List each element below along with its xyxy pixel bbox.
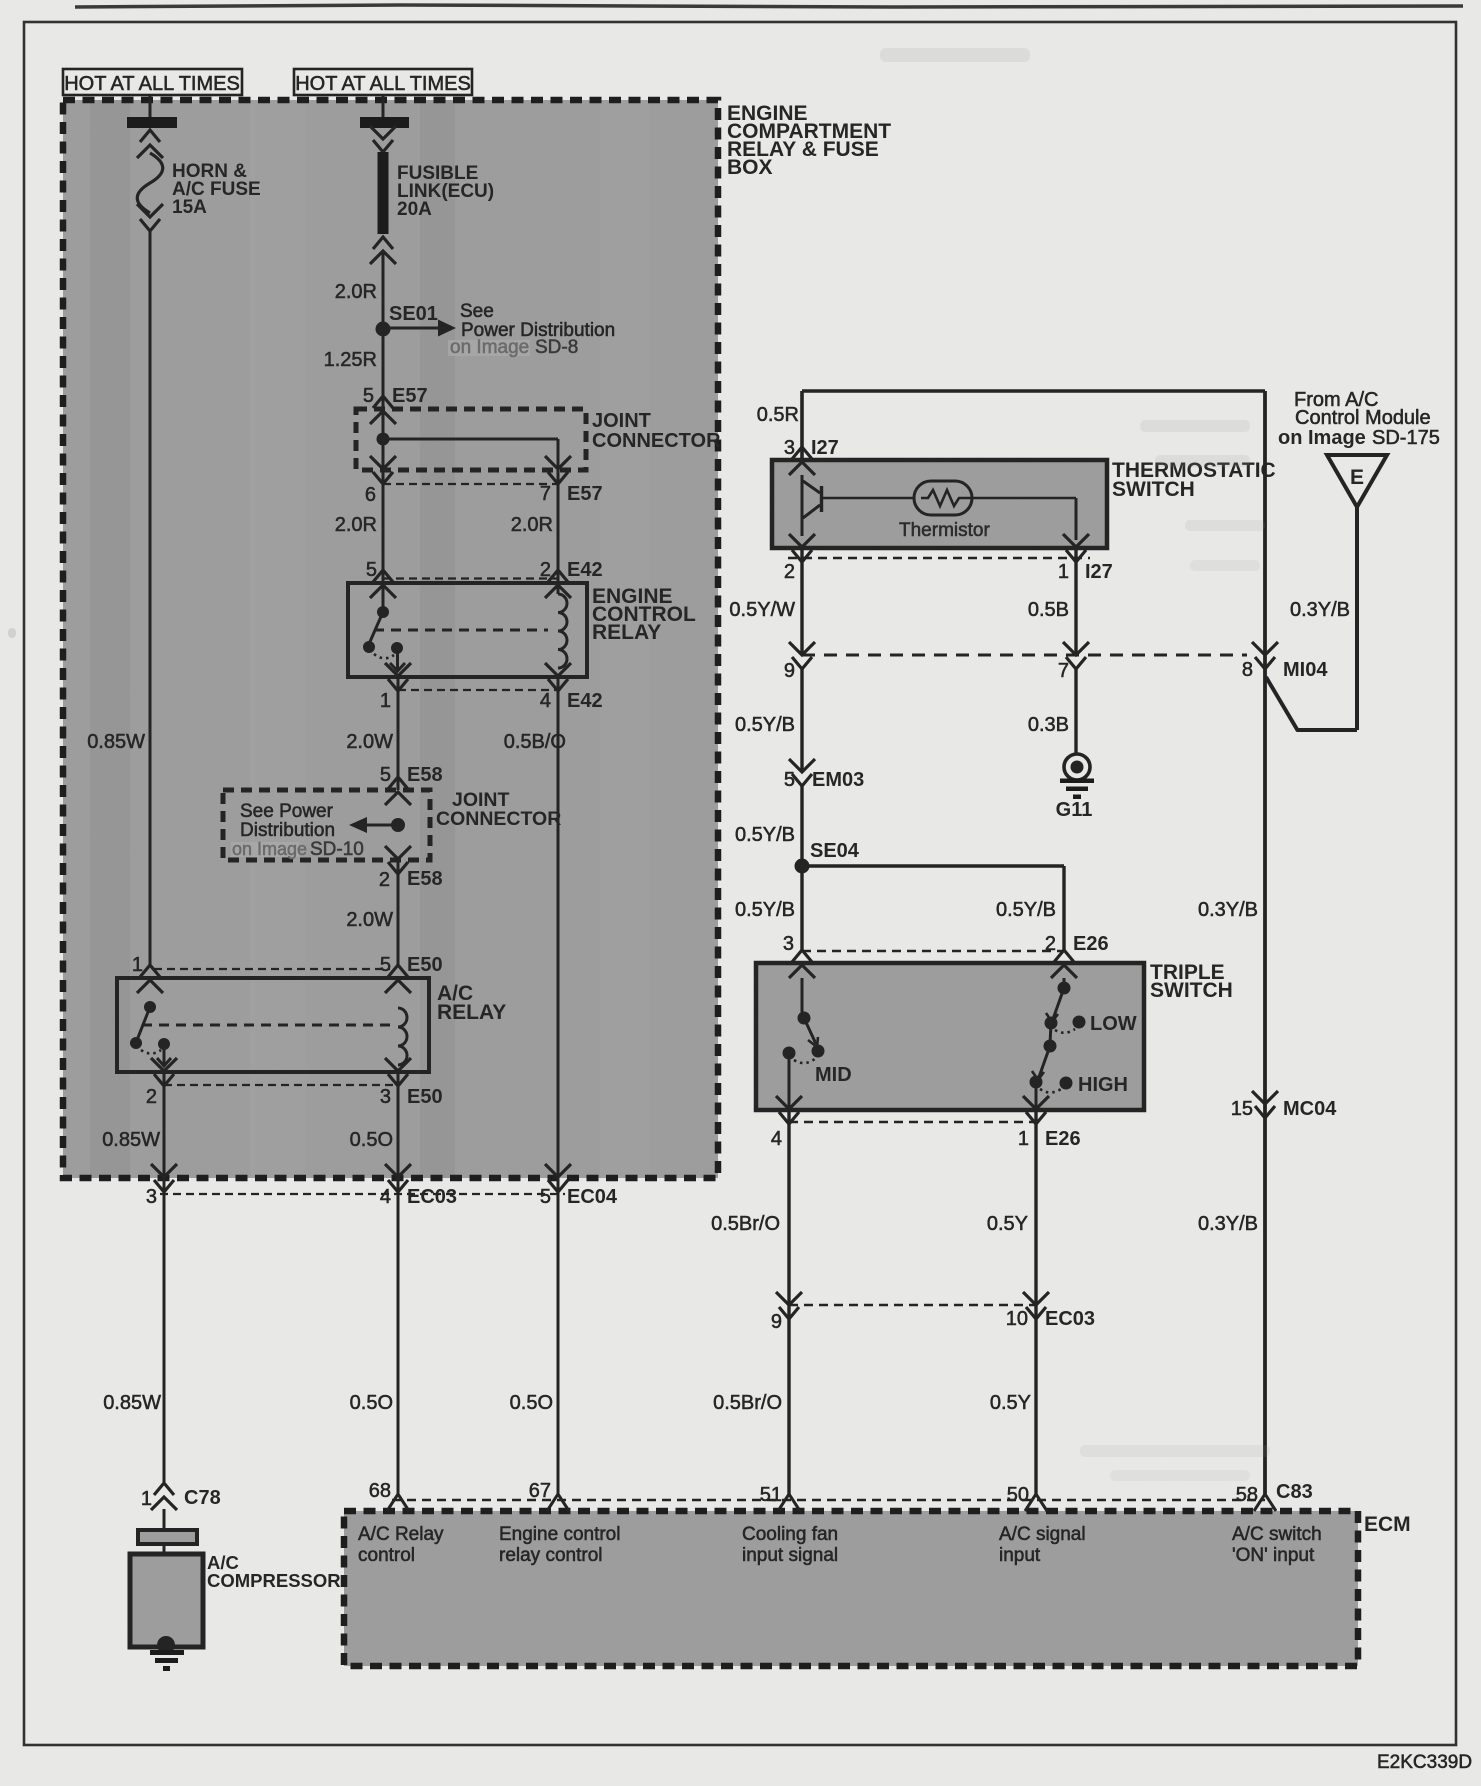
svg-text:0.5Y/B: 0.5Y/B: [735, 899, 795, 921]
svg-text:A/C Relay: A/C Relay: [358, 1524, 444, 1545]
connector E57 pin 5 symbol: [373, 396, 393, 408]
connector line E50 bottom (thin dashed): [164, 1084, 398, 1086]
svg-text:20A: 20A: [397, 199, 432, 220]
svg-text:G11: G11: [1056, 799, 1093, 821]
svg-text:E50: E50: [407, 954, 443, 976]
svg-text:SD-10: SD-10: [310, 839, 364, 860]
EC03 pin 10 symbol: [1023, 1292, 1049, 1305]
connector EM03 pin 5 symbol: [789, 759, 815, 772]
svg-text:15A: 15A: [172, 197, 207, 218]
connector line E26 bottom (thin dashed): [789, 1121, 1036, 1123]
svg-text:3: 3: [146, 1186, 157, 1208]
connector line E42 top (thin dashed): [383, 577, 558, 579]
svg-text:HIGH: HIGH: [1078, 1074, 1128, 1096]
node SE01: [376, 322, 391, 337]
svg-text:6: 6: [365, 484, 376, 506]
svg-text:'ON' input: 'ON' input: [1232, 1545, 1315, 1566]
svg-text:A/C switch: A/C switch: [1232, 1524, 1322, 1545]
svg-text:EC04: EC04: [567, 1186, 618, 1208]
svg-text:5: 5: [784, 769, 795, 791]
wire from thermistor to I27 pin 1: [966, 497, 1076, 500]
svg-text:1: 1: [1018, 1128, 1029, 1150]
connector line I27 (thin dashed): [788, 557, 1090, 560]
svg-text:2.0W: 2.0W: [346, 731, 393, 753]
svg-text:SWITCH: SWITCH: [1112, 478, 1195, 501]
wire E57 pin7 to E42 pin 2: [557, 468, 560, 594]
svg-text:7: 7: [1058, 660, 1069, 682]
ECM pin 50 fork: [1025, 1494, 1047, 1511]
engine compartment relay & fuse box (shaded dashed box): [63, 100, 718, 1178]
power bus bar (left): [127, 117, 177, 128]
svg-text:0.3Y/B: 0.3Y/B: [1198, 899, 1258, 921]
svg-text:0.5Y/B: 0.5Y/B: [996, 899, 1056, 921]
svg-text:Control Module: Control Module: [1295, 407, 1431, 429]
junction node in joint connector E57: [377, 433, 390, 446]
wire right column to ECM pin 58: [1263, 391, 1267, 1494]
relay coil (engine control relay): [558, 594, 567, 668]
connector MC04 pin 15 symbol: [1252, 1091, 1278, 1104]
svg-text:HOT AT ALL TIMES: HOT AT ALL TIMES: [295, 73, 471, 95]
wire E58 pin 2 to E50 pin 5: [397, 860, 400, 966]
svg-text:E58: E58: [407, 764, 443, 786]
LOW/HIGH switch: [1063, 978, 1066, 986]
svg-text:0.5Y: 0.5Y: [990, 1392, 1031, 1414]
connector C78 pin 1: [154, 1483, 174, 1495]
wire down to I27 pin 3: [800, 391, 804, 460]
svg-text:4: 4: [771, 1128, 782, 1150]
relay: A/C RELAY box: [117, 978, 429, 1072]
junction node in joint connector E58: [391, 818, 405, 832]
wire SE04 branch to E26 pin 2: [802, 864, 1064, 867]
relay coil (A/C relay): [398, 1008, 407, 1065]
connector line E50 top (thin dashed): [154, 968, 390, 970]
connector below fusible link: [373, 237, 393, 249]
svg-text:ECM: ECM: [1364, 1513, 1411, 1536]
connector below right bus bar: [370, 126, 396, 139]
svg-text:Thermistor: Thermistor: [899, 520, 990, 541]
svg-text:SWITCH: SWITCH: [1150, 979, 1233, 1002]
svg-text:input: input: [999, 1545, 1041, 1566]
wire branch to E57 pin 7: [383, 438, 558, 441]
svg-text:CONNECTOR: CONNECTOR: [592, 430, 721, 452]
svg-text:SE04: SE04: [810, 840, 860, 862]
svg-text:A/C signal: A/C signal: [999, 1524, 1086, 1545]
connector below fuse: [137, 204, 163, 217]
svg-text:SE01: SE01: [389, 303, 438, 325]
relay internal dashed link: [374, 629, 548, 632]
E42 pin 4 exit symbol: [545, 663, 571, 676]
connector line EC03/EC04 (thin dashed): [160, 1193, 565, 1195]
connector I27 pin 3 symbol: [792, 447, 812, 459]
fuse box exit pin 5 symbol: [545, 1164, 571, 1177]
svg-text:HOT AT ALL TIMES: HOT AT ALL TIMES: [64, 73, 240, 95]
svg-text:0.85W: 0.85W: [87, 731, 145, 753]
E50 pin 3 exit symbol: [385, 1058, 411, 1071]
svg-text:0.5Br/O: 0.5Br/O: [711, 1213, 780, 1235]
photocopy noise overlay: [0, 0, 1, 1]
wire E26 pin1 to ECM pin 50: [1034, 1110, 1037, 1494]
svg-text:EC03: EC03: [407, 1186, 457, 1208]
E42 pin 1 exit symbol: [385, 663, 411, 676]
joint connector E57 (dashed box): [356, 409, 586, 470]
svg-text:2: 2: [146, 1086, 157, 1108]
connector E58 pin 5 symbol: [388, 777, 408, 789]
E50 pin 1 entry symbol: [140, 965, 160, 977]
wire I27 pin1 to MI04 pin 7: [1074, 548, 1077, 655]
E50 pin 2 exit symbol: [151, 1058, 177, 1071]
svg-text:0.5O: 0.5O: [510, 1392, 553, 1414]
svg-text:4: 4: [380, 1186, 391, 1208]
svg-text:0.5O: 0.5O: [350, 1392, 393, 1414]
connector line E26 top (thin dashed): [802, 950, 1064, 952]
svg-text:E26: E26: [1045, 1128, 1081, 1150]
fuse box exit pin 3 symbol: [151, 1164, 177, 1177]
svg-text:See: See: [460, 301, 494, 322]
svg-text:relay control: relay control: [499, 1545, 603, 1566]
svg-text:1.25R: 1.25R: [324, 349, 377, 371]
svg-text:MI04: MI04: [1283, 659, 1328, 681]
svg-text:0.85W: 0.85W: [102, 1129, 160, 1151]
ECM pin 58 fork / connector C83: [1254, 1494, 1276, 1511]
wire from right HOT AT ALL TIMES to fusible link: [382, 95, 385, 118]
svg-text:1: 1: [132, 954, 143, 976]
wire E42 pin1 to E58 pin 5: [397, 677, 400, 790]
svg-text:MC04: MC04: [1283, 1098, 1337, 1120]
wire from fusible link to E57 pin 5: [382, 251, 385, 612]
connector line C83 (thin dashed): [392, 1499, 1265, 1501]
svg-text:E42: E42: [567, 690, 603, 712]
thermo switch contact symbol: [801, 475, 804, 536]
svg-text:Engine control: Engine control: [499, 1524, 620, 1545]
svg-text:RELAY: RELAY: [592, 621, 661, 644]
svg-text:0.3Y/B: 0.3Y/B: [1198, 1213, 1258, 1235]
svg-text:BOX: BOX: [727, 156, 773, 179]
svg-text:5: 5: [363, 385, 374, 407]
ground symbol below compressor: [150, 1650, 184, 1655]
scan artifact top edge: [75, 5, 1463, 7]
svg-text:0.5O: 0.5O: [350, 1129, 393, 1151]
svg-text:LOW: LOW: [1090, 1013, 1137, 1035]
svg-text:50: 50: [1007, 1484, 1029, 1506]
svg-text:SD-175: SD-175: [1372, 427, 1440, 449]
svg-text:EC03: EC03: [1045, 1308, 1095, 1330]
svg-text:on Image: on Image: [232, 839, 307, 859]
svg-text:3: 3: [380, 1086, 391, 1108]
MI04 pin 7 symbol: [1063, 642, 1089, 655]
svg-text:E58: E58: [407, 868, 443, 890]
svg-text:Distribution: Distribution: [240, 820, 335, 841]
svg-text:0.5B: 0.5B: [1028, 599, 1069, 621]
svg-text:2.0R: 2.0R: [511, 514, 553, 536]
svg-text:E42: E42: [567, 559, 603, 581]
svg-text:C83: C83: [1276, 1481, 1313, 1503]
svg-text:SD-8: SD-8: [535, 337, 578, 358]
svg-text:E57: E57: [392, 385, 428, 407]
off-page connector E (triangle): [1327, 455, 1387, 507]
svg-text:15: 15: [1231, 1098, 1253, 1120]
arrow to See Power Distribution on Image SD-10: [367, 824, 392, 827]
svg-text:1: 1: [141, 1488, 152, 1510]
svg-text:1: 1: [1058, 561, 1069, 583]
E42 pin 2 entry symbol: [548, 570, 568, 582]
svg-text:7: 7: [540, 483, 551, 505]
wire E26 pin4 to ECM pin 51: [787, 1110, 790, 1494]
relay switch (A/C relay): [144, 1001, 156, 1013]
compressor clutch coil bar: [138, 1530, 197, 1544]
svg-text:1: 1: [380, 690, 391, 712]
svg-text:JOINT: JOINT: [592, 410, 651, 432]
fusible link (ECU) 20A thick bar: [378, 152, 389, 234]
svg-text:0.5Y/B: 0.5Y/B: [735, 824, 795, 846]
wire I27 pin2 to MI04 pin 9: [800, 548, 803, 655]
ECM pin 67 fork: [547, 1494, 569, 1511]
ECM (shaded dashed box): [344, 1511, 1358, 1666]
svg-text:on Image: on Image: [450, 337, 529, 358]
wire E50 pin3 to ECM pin 68: [397, 1072, 400, 1494]
ECM pin 51 fork: [778, 1494, 800, 1511]
svg-text:C78: C78: [184, 1487, 221, 1509]
svg-text:4: 4: [540, 690, 551, 712]
svg-text:E50: E50: [407, 1086, 443, 1108]
svg-text:5: 5: [380, 764, 391, 786]
E42 pin 5 entry symbol: [373, 570, 393, 582]
svg-text:0.5Y: 0.5Y: [987, 1213, 1028, 1235]
ECM pin 68 fork: [387, 1494, 409, 1511]
HOT AT ALL TIMES label box (left): [63, 69, 242, 95]
connector E57 pin 7 symbol: [545, 456, 571, 469]
svg-text:MID: MID: [815, 1064, 852, 1086]
fuse box exit pin 4 symbol: [385, 1164, 411, 1177]
wire E42 pin4 down to ECM pin 67: [557, 677, 560, 1494]
svg-text:68: 68: [369, 1480, 391, 1502]
E26 pin 1 exit symbol: [1023, 1096, 1049, 1109]
faint ghost marks (photocopy bleed): [8, 48, 1270, 1481]
svg-text:E26: E26: [1073, 933, 1109, 955]
svg-text:EM03: EM03: [812, 769, 864, 791]
svg-text:input signal: input signal: [742, 1545, 838, 1566]
svg-text:9: 9: [784, 660, 795, 682]
svg-text:2: 2: [784, 561, 795, 583]
A/C COMPRESSOR box: [130, 1554, 203, 1647]
wire from E to MI04 pin 8: [1355, 507, 1359, 730]
svg-text:See Power: See Power: [240, 801, 334, 822]
svg-text:I27: I27: [1085, 561, 1113, 583]
svg-text:58: 58: [1236, 1484, 1258, 1506]
compressor ground dot: [157, 1636, 175, 1654]
MI04 pin 9 symbol: [789, 642, 815, 655]
THERMOSTATIC SWITCH box: [772, 460, 1107, 548]
connector I27 pin 1 symbol: [1063, 534, 1089, 547]
E26 pin 3 entry symbol: [792, 950, 812, 962]
connector I27 pin 2 symbol: [789, 534, 815, 547]
relay: ENGINE CONTROL RELAY box: [348, 583, 587, 677]
svg-text:2: 2: [379, 869, 390, 891]
svg-text:E57: E57: [567, 483, 603, 505]
wire MI04 pin9 to EM03: [800, 669, 803, 770]
svg-text:control: control: [358, 1545, 415, 1566]
svg-text:on Image: on Image: [1278, 427, 1366, 449]
MID switch: [801, 978, 804, 1016]
TRIPLE SWITCH box: [756, 963, 1144, 1110]
joint connector E58 (dashed box): [223, 790, 430, 860]
E26 pin 2 entry symbol: [1054, 950, 1074, 962]
relay internal dashed link (A/C relay): [142, 1024, 390, 1027]
svg-text:I27: I27: [811, 437, 839, 459]
connector line E42 bottom (thin dashed): [398, 689, 558, 691]
svg-text:5: 5: [380, 954, 391, 976]
wire MI04 pin7 to ground G11: [1074, 669, 1077, 754]
svg-text:2: 2: [1045, 933, 1056, 955]
arrow to See Power Distribution on Image SD-8: [390, 327, 440, 330]
ground G11: [1064, 754, 1090, 780]
svg-text:51: 51: [760, 1484, 782, 1506]
MI04 pin 8 symbol: [1252, 642, 1278, 655]
svg-text:RELAY: RELAY: [437, 1001, 506, 1024]
svg-text:0.85W: 0.85W: [103, 1392, 161, 1414]
connector E57 pin 6 symbol: [370, 456, 396, 469]
svg-text:2.0R: 2.0R: [335, 514, 377, 536]
wire from left HOT AT ALL TIMES to fuse: [149, 95, 152, 118]
thermistor (oval with zigzag): [823, 497, 914, 500]
HOT AT ALL TIMES label box (right): [294, 69, 472, 95]
E26 pin 4 exit symbol: [776, 1096, 802, 1109]
EC03 pin 9 symbol: [776, 1292, 802, 1305]
svg-text:E2KC339D: E2KC339D: [1377, 1752, 1472, 1773]
svg-text:8: 8: [1242, 659, 1253, 681]
fuse HORN & A/C FUSE 15A (S-curve symbol): [137, 153, 163, 213]
connector EC03 dashed line (lower): [789, 1304, 1036, 1306]
wire from fuse down to A/C relay pin 1: [149, 231, 152, 966]
connector below left bus bar: [140, 130, 160, 142]
wire EM03 to E26 pin 3: [800, 786, 803, 950]
connector line E57 (thin dashed): [383, 483, 558, 485]
svg-text:COMPRESSOR: COMPRESSOR: [207, 1570, 341, 1591]
connector E58 pin 2 symbol: [385, 846, 411, 859]
svg-text:0.5R: 0.5R: [757, 404, 799, 426]
wire E50 pin2 to compressor: [163, 1072, 166, 1482]
svg-text:Cooling fan: Cooling fan: [742, 1524, 838, 1545]
svg-text:0.3Y/B: 0.3Y/B: [1290, 599, 1350, 621]
svg-text:9: 9: [771, 1311, 782, 1333]
svg-text:5: 5: [540, 1186, 551, 1208]
svg-text:3: 3: [783, 933, 794, 955]
svg-text:0.5Br/O: 0.5Br/O: [713, 1392, 782, 1414]
svg-text:0.3B: 0.3B: [1028, 714, 1069, 736]
svg-text:2.0W: 2.0W: [346, 909, 393, 931]
svg-text:0.5Y/B: 0.5Y/B: [735, 714, 795, 736]
svg-text:0.5Y/W: 0.5Y/W: [729, 599, 795, 621]
svg-text:67: 67: [529, 1480, 551, 1502]
wire 0.5R top horizontal: [802, 389, 1265, 393]
E50 pin 5 entry symbol: [388, 965, 408, 977]
svg-text:CONNECTOR: CONNECTOR: [436, 808, 561, 830]
svg-text:2.0R: 2.0R: [335, 281, 377, 303]
connector MI04 dashed line: [802, 654, 1247, 657]
svg-text:E: E: [1350, 466, 1364, 489]
power bus bar (right): [360, 117, 409, 128]
svg-text:10: 10: [1006, 1308, 1028, 1330]
relay switch (engine control relay): [377, 606, 389, 618]
